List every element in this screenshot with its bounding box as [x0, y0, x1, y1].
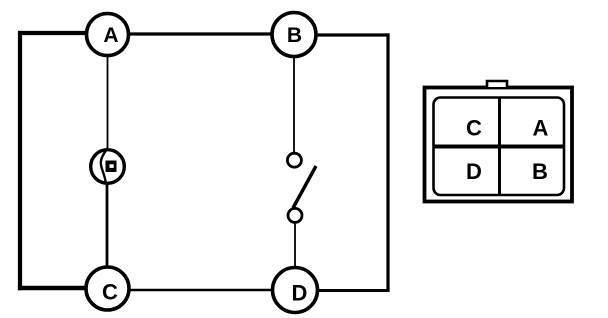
svg-text:A: A — [103, 24, 118, 47]
wire: bottom rail, left corner to lamp C — [18, 286, 108, 291]
svg-text:B: B — [532, 159, 548, 184]
wire: middle branch lamp to C — [106, 182, 109, 270]
wire: right side vertical — [386, 33, 389, 292]
lamp C — [86, 267, 129, 310]
connector tab (top) — [487, 81, 507, 87]
connector divider vertical — [498, 98, 501, 196]
lamp B — [272, 13, 316, 57]
connector housing outer body — [425, 88, 573, 202]
wire: top rail, lamp A to lamp B — [108, 32, 294, 35]
wire: top rail, lamp B to right corner — [294, 33, 390, 36]
wire: right branch switch to D — [294, 222, 296, 270]
svg-text:A: A — [533, 116, 549, 141]
wire: bottom rail, lamp D to right corner — [296, 289, 390, 292]
wire: right branch B to switch — [293, 45, 295, 154]
lamp D — [273, 268, 318, 313]
lamp (bulb symbol, middle branch) — [91, 148, 125, 184]
lamp A — [87, 14, 129, 56]
switch (open), right branch — [287, 153, 316, 222]
svg-text:C: C — [102, 280, 118, 305]
wire: bottom rail, lamp C to lamp D — [108, 289, 296, 292]
wire: left side vertical — [18, 31, 22, 290]
svg-text:C: C — [466, 116, 482, 141]
wire: top rail, left corner to lamp A — [18, 31, 108, 35]
wire: middle branch A to lamp — [107, 45, 109, 150]
svg-text:D: D — [466, 159, 482, 184]
connector divider horizontal — [434, 145, 565, 149]
svg-text:D: D — [292, 281, 308, 306]
svg-text:B: B — [287, 24, 302, 47]
connector inner cavity outline — [434, 98, 565, 196]
